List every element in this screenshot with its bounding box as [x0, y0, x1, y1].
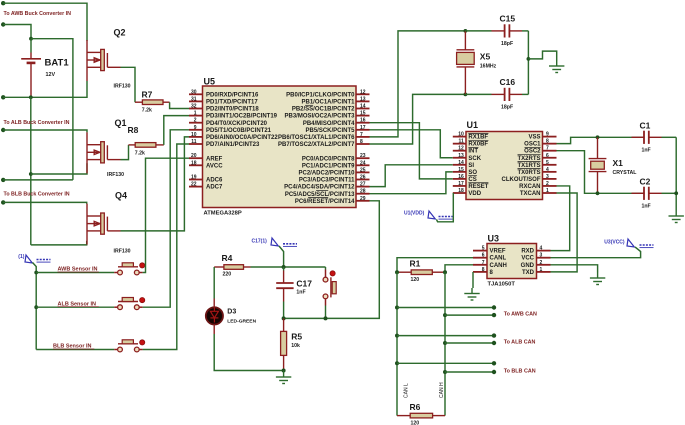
- svg-text:PD0/RXD/PCINT16: PD0/RXD/PCINT16: [206, 92, 259, 98]
- svg-text:11: 11: [459, 139, 465, 145]
- svg-text:PC6/RESET/PCINT14: PC6/RESET/PCINT14: [295, 199, 355, 205]
- svg-text:31: 31: [191, 96, 197, 102]
- svg-text:U1: U1: [467, 120, 479, 130]
- svg-text:U3(VCC): U3(VCC): [604, 239, 625, 245]
- wire CAN H rail: [444, 272, 446, 415]
- pin 13 U1 SCK: [453, 157, 466, 159]
- node R1 right (CAN H): [443, 270, 447, 274]
- svg-text:120: 120: [411, 421, 420, 425]
- pin lead C17 top: [283, 267, 285, 271]
- svg-text:OSC1: OSC1: [524, 142, 541, 148]
- pin 16 U5 PB4/MISO/PCINT4: [356, 122, 370, 124]
- LED D3: [206, 307, 223, 324]
- svg-text:Q2: Q2: [114, 28, 126, 38]
- svg-text:INT: INT: [468, 149, 478, 155]
- wire U5 PB5 (17) to U1 SCK: [370, 130, 453, 158]
- pin 19 U5 ADC6: [189, 179, 203, 181]
- pin lead R1 right: [432, 271, 445, 273]
- pin 6 U1 TX2RTS: [543, 157, 557, 159]
- svg-text:PB3/MOSI/OC2A/PCINT3: PB3/MOSI/OC2A/PCINT3: [284, 114, 355, 120]
- svg-text:23: 23: [360, 153, 366, 159]
- svg-text:X5: X5: [480, 52, 491, 62]
- pin 30 U5 PD0/RXD/PCINT16: [189, 93, 203, 95]
- wire U1 RXCAN to U3 RXD: [551, 186, 570, 251]
- pin 12 U5 PB0/ICP1/CLKO/PCINT0: [356, 93, 370, 95]
- wire ALB button to U5 pin 9 (PD5): [143, 130, 189, 307]
- svg-text:PD1/TXD/PCINT17: PD1/TXD/PCINT17: [206, 100, 258, 106]
- svg-text:PB6/TOSC1/XTAL1/PCINT6: PB6/TOSC1/XTAL1/PCINT6: [278, 135, 355, 141]
- wire U1 OSC1 to X1/C1 rail: [557, 137, 645, 143]
- pin 17 U1 RESET: [453, 185, 466, 187]
- svg-text:12V: 12V: [46, 72, 56, 78]
- svg-text:4: 4: [546, 167, 549, 173]
- flag symbol U1(VDD): [428, 211, 435, 219]
- wire battery- lead down: [30, 72, 32, 97]
- wire U1 TXCAN to U3 TXD: [551, 193, 578, 272]
- svg-text:PD3/INT1/OC2B/PCINT19: PD3/INT1/OC2B/PCINT19: [206, 114, 278, 120]
- svg-text:CRYSTAL: CRYSTAL: [613, 170, 638, 176]
- svg-text:To ALB CAN: To ALB CAN: [504, 339, 536, 345]
- svg-text:10k: 10k: [291, 343, 300, 349]
- pin 9 U5 PD5/T1/OC0B/PCINT21: [189, 129, 203, 131]
- svg-text:10: 10: [191, 132, 197, 138]
- svg-text:TX0RTS: TX0RTS: [517, 170, 540, 176]
- svg-text:SCK: SCK: [468, 156, 481, 162]
- svg-text:13: 13: [458, 153, 464, 159]
- terminal dot To ALB CAN (L): [492, 333, 496, 337]
- svg-text:TX2RTS: TX2RTS: [517, 156, 540, 162]
- svg-text:RXCAN: RXCAN: [519, 184, 540, 190]
- terminal dot To AWB CAN (H): [492, 313, 496, 317]
- svg-text:5: 5: [546, 160, 549, 166]
- svg-text:IRF130: IRF130: [114, 84, 131, 90]
- node sensor rail AWB: [34, 271, 38, 275]
- svg-text:OSC2: OSC2: [524, 149, 541, 155]
- wire battery- to Q4 source: [31, 241, 87, 245]
- terminal dot: To AWB Buck Converter IN (top rail): [1, 1, 5, 5]
- node CAN H tap ALB: [443, 341, 447, 345]
- capacitor C2: [644, 187, 649, 200]
- svg-text:AVCC: AVCC: [206, 163, 223, 169]
- svg-text:R6: R6: [410, 402, 421, 412]
- pin 15 U1 SO: [453, 171, 466, 173]
- wire D3 bottom to ground node: [214, 334, 283, 371]
- svg-text:RXD: RXD: [521, 249, 534, 255]
- svg-text:7.2k: 7.2k: [135, 150, 145, 156]
- svg-text:CAN L: CAN L: [404, 383, 410, 398]
- svg-text:PD6/AIN0/OC0A/PCINT22: PD6/AIN0/OC0A/PCINT22: [206, 135, 278, 141]
- node C17 bottom junction: [282, 316, 286, 320]
- svg-text:GND: GND: [521, 263, 535, 269]
- wire CAN H to To BLB CAN: [445, 371, 494, 373]
- svg-text:C16: C16: [500, 77, 516, 87]
- svg-text:U5: U5: [204, 77, 216, 87]
- pin lead R4 right: [244, 266, 251, 268]
- terminal dot: Q4 drain row: [1, 200, 5, 204]
- pin 18 U1 VDD: [453, 192, 466, 194]
- svg-text:ADC7: ADC7: [206, 185, 223, 191]
- push button reset (vertical): [325, 267, 327, 270]
- svg-text:VREF: VREF: [490, 249, 506, 255]
- pin 23 U5 PC0/ADC0/PCINT8: [356, 157, 370, 159]
- transistor Q2: [87, 40, 121, 81]
- svg-text:14: 14: [458, 160, 464, 166]
- pin 22 U5 ADC7: [189, 186, 203, 188]
- svg-text:PC1/ADC1/PCINT9: PC1/ADC1/PCINT9: [302, 163, 355, 169]
- pin 1 U1 TXCAN: [543, 192, 557, 194]
- pin 15 U5 PB3/MOSI/OC2A/PCINT3: [356, 115, 370, 117]
- wire battery- to Q1 source: [31, 163, 87, 174]
- pin lead C1 right: [649, 136, 662, 138]
- pin 14 U1 SI: [453, 164, 466, 166]
- pin lead C15 left: [465, 30, 491, 32]
- wire U3 GND to ground: [551, 265, 598, 273]
- wire U5 PB4 (16) to U1 CS: [370, 123, 453, 179]
- svg-text:8: 8: [482, 267, 485, 273]
- pin lead D3 bottom: [213, 325, 215, 335]
- svg-text:R7: R7: [142, 90, 153, 100]
- pin lead R5 bottom: [283, 355, 285, 370]
- terminal dot To ALB CAN (H): [492, 341, 496, 345]
- wire Q4 drain row: [3, 202, 87, 203]
- wire R4 corner down to D3: [213, 267, 215, 299]
- node sensor rail ALB: [34, 305, 38, 309]
- pin 20 U5 AREF: [189, 157, 203, 159]
- svg-text:TXCAN: TXCAN: [520, 191, 541, 197]
- pin 10 U5 PD6/AIN0/OC0A/PCINT22: [189, 136, 203, 138]
- pin 32 U5 PD2/INT0/PCINT18: [189, 108, 203, 110]
- pin lead R7 right: [163, 101, 170, 103]
- wire U1 OSC2 to X1/C2 rail: [557, 151, 645, 194]
- wire AWB sensor row: [36, 272, 114, 274]
- push button AWB sensor: [114, 272, 117, 274]
- resistor R1: [411, 270, 432, 275]
- pin 3 U3 VCC: [537, 257, 551, 259]
- flag symbol U3(VCC): [627, 239, 634, 247]
- pin 8 U3 S: [473, 271, 487, 273]
- svg-text:PB5/SCK/PCINT5: PB5/SCK/PCINT5: [305, 128, 355, 134]
- svg-text:30: 30: [191, 89, 197, 95]
- svg-text:27: 27: [360, 182, 366, 188]
- wire CAN H to To AWB CAN: [445, 314, 494, 316]
- svg-text:RX1BF: RX1BF: [468, 135, 488, 141]
- svg-text:PB7/TOSC2/XTAL2/PCINT7: PB7/TOSC2/XTAL2/PCINT7: [278, 142, 355, 148]
- svg-text:(1): (1): [18, 254, 24, 260]
- pin 11 U1 RX0BF: [453, 143, 466, 145]
- terminal dot: Q1 drain row: [1, 128, 5, 132]
- wire R7 to U5 pin 32: [170, 102, 189, 108]
- svg-text:2: 2: [540, 260, 543, 266]
- svg-text:CLKOUT/SOF: CLKOUT/SOF: [502, 177, 541, 183]
- pin 7 U1 OSC2: [543, 150, 557, 152]
- wire U5 PC4 (27) to U1 SI: [370, 165, 453, 187]
- IC U3 body (CAN transceiver): [487, 244, 537, 279]
- ground (crystal X5 filter): [549, 61, 564, 73]
- wire battery+ branch to right rail: [31, 39, 73, 180]
- node C15/C16 ground junction: [527, 57, 531, 61]
- pin lead R1 left: [397, 271, 411, 273]
- svg-text:PC4/ADC4/SDA/PCINT12: PC4/ADC4/SDA/PCINT12: [284, 185, 355, 191]
- wire U3 pin8 to ground: [472, 272, 474, 288]
- wire top rail to Q2 drain: [3, 3, 87, 41]
- node R5/D3 ground junction: [282, 369, 286, 373]
- flag dashes U3(VCC): [640, 244, 654, 246]
- wire Q2 gate to R7: [121, 67, 136, 102]
- svg-text:9: 9: [546, 132, 549, 138]
- wire U5 PB6 (7) to X5/C15: [370, 31, 466, 137]
- svg-text:6: 6: [546, 153, 549, 159]
- flag symbol C17(1): [271, 238, 278, 246]
- pin lead R7 left: [135, 101, 142, 103]
- node X5 top junction: [464, 29, 468, 33]
- svg-text:15: 15: [360, 111, 366, 117]
- svg-text:VCC: VCC: [521, 256, 534, 262]
- pin 4 U1 TX0RTS: [543, 171, 557, 173]
- svg-text:C2: C2: [640, 177, 651, 187]
- pin 1 U5 PD3/INT1/OC2B/PCINT19: [189, 115, 203, 117]
- pin 8 U1 OSC1: [543, 143, 557, 145]
- wire CAN H to To ALB CAN: [445, 342, 494, 344]
- push button ALB sensor: [114, 306, 117, 308]
- svg-text:CANL: CANL: [490, 256, 507, 262]
- svg-text:R5: R5: [291, 331, 302, 341]
- flag dashes C17(1): [283, 243, 297, 245]
- pin 26 U5 PC3/ADC3/PCINT11: [356, 179, 370, 181]
- pin lead C15 right: [509, 30, 522, 32]
- wire battery+ from terminal: [3, 25, 31, 39]
- svg-text:7: 7: [482, 260, 485, 266]
- svg-text:D3: D3: [227, 309, 236, 316]
- resistor R7: [142, 100, 163, 105]
- pin lead C1 left stub: [632, 136, 645, 138]
- svg-text:RESET: RESET: [468, 184, 488, 190]
- ground (U3 S pin): [464, 288, 479, 300]
- pin 2 U1 RXCAN: [543, 185, 557, 187]
- wire R4 right to C17 node and reset button: [251, 266, 326, 268]
- wire AWB button to U5 AREF: [143, 158, 189, 272]
- svg-text:7.2k: 7.2k: [142, 108, 152, 114]
- pin 2 U3 GND: [537, 264, 551, 266]
- svg-text:7: 7: [360, 132, 363, 138]
- pin lead R4 left: [214, 266, 224, 268]
- wire U5 PC6 (29) to reset network: [284, 201, 380, 319]
- svg-text:16: 16: [360, 118, 366, 124]
- ground (X1 load caps): [669, 211, 684, 223]
- svg-text:PD7/AIN1/PCINT23: PD7/AIN1/PCINT23: [206, 142, 260, 148]
- pin 27 U5 PC4/ADC4/SDA/PCINT12: [356, 186, 370, 188]
- svg-text:ADC6: ADC6: [206, 178, 223, 184]
- svg-text:U1(VDD): U1(VDD): [404, 211, 425, 217]
- ground (U3 GND): [590, 273, 605, 285]
- svg-text:TX1RTS: TX1RTS: [517, 163, 540, 169]
- pin lead C2 left stub: [632, 192, 645, 194]
- wire battery- row to Q2 source: [3, 81, 87, 97]
- crystal X1: [589, 137, 607, 193]
- transistor Q4: [87, 204, 121, 245]
- terminal dot To BLB CAN (L): [492, 361, 496, 365]
- wire U5 PB7 (8) to X5/C16: [370, 94, 466, 144]
- svg-text:R4: R4: [222, 253, 233, 263]
- pin lead R5 top: [283, 318, 285, 331]
- svg-text:VDD: VDD: [468, 191, 481, 197]
- wire U3 CANL to R1 node: [397, 258, 473, 273]
- svg-text:1nF: 1nF: [642, 148, 651, 154]
- wire sensor common rail: [35, 273, 37, 350]
- node reset button bottom junction: [324, 316, 328, 320]
- wire battery+ lower row: [3, 179, 73, 181]
- svg-text:17: 17: [360, 125, 366, 131]
- pin 2 U5 PD4/T0/XCK/PCINT20: [189, 122, 203, 124]
- wire Q4 gate to U5 pin 10 (PD6): [121, 137, 190, 231]
- pin 29 U5 PC6/RESET/PCINT14: [356, 200, 370, 202]
- svg-text:IRF130: IRF130: [114, 248, 131, 254]
- svg-text:26: 26: [360, 175, 366, 181]
- svg-text:TXD: TXD: [522, 270, 535, 276]
- svg-text:To BLB CAN: To BLB CAN: [504, 368, 536, 374]
- resistor R5 (vertical): [281, 331, 287, 355]
- wire flag (1) pole: [33, 263, 37, 273]
- svg-text:PB4/MISO/PCINT4: PB4/MISO/PCINT4: [303, 121, 355, 127]
- svg-text:U3: U3: [488, 234, 500, 244]
- svg-text:8: 8: [546, 139, 549, 145]
- pin 17 U5 PB5/SCK/PCINT5: [356, 129, 370, 131]
- pin 12 U1 INT: [453, 150, 466, 152]
- capacitor C15: [505, 24, 510, 37]
- pin 11 U5 PD7/AIN1/PCINT23: [189, 143, 203, 145]
- pin 14 U5 PB2/SS/OC1B/PCINT2: [356, 108, 370, 110]
- node CAN L tap BLB: [395, 361, 399, 365]
- svg-text:BAT1: BAT1: [45, 58, 70, 69]
- pin 9 U1 VSS: [543, 136, 557, 138]
- resistor R4: [224, 265, 244, 270]
- svg-text:32: 32: [191, 104, 197, 110]
- pin lead C16 right: [509, 93, 522, 95]
- wire BLB sensor row: [36, 349, 114, 351]
- pin lead C17 bottom: [283, 288, 285, 301]
- svg-text:7: 7: [546, 146, 549, 152]
- svg-text:1: 1: [540, 267, 543, 273]
- svg-text:11: 11: [191, 139, 197, 145]
- pin 5 U1 TX1RTS: [543, 164, 557, 166]
- node battery- junction at rail: [29, 95, 33, 99]
- svg-text:22: 22: [191, 182, 197, 188]
- svg-text:18: 18: [191, 160, 197, 166]
- terminal dot: battery+ (row2): [1, 22, 5, 26]
- svg-text:29: 29: [360, 196, 366, 202]
- svg-text:TJA1050T: TJA1050T: [488, 282, 516, 288]
- svg-text:17: 17: [458, 181, 464, 187]
- svg-text:PD2/INT0/PCINT18: PD2/INT0/PCINT18: [206, 107, 259, 113]
- pin 8 U5 PB7/TOSC2/XTAL2/PCINT7: [356, 143, 370, 145]
- wire U3 VCC to flag: [551, 247, 641, 258]
- terminal dot To AWB CAN (L): [492, 305, 496, 309]
- flag dashes U1(VDD): [439, 216, 453, 218]
- svg-text:C17(1): C17(1): [252, 239, 268, 245]
- svg-text:CANH: CANH: [490, 263, 507, 269]
- pin 4 U3 RXD: [537, 250, 551, 252]
- node C2 ground junction: [674, 191, 678, 195]
- svg-text:9: 9: [194, 125, 197, 131]
- svg-text:1: 1: [546, 188, 549, 194]
- svg-text:1: 1: [194, 111, 197, 117]
- node CAN H tap AWB: [443, 313, 447, 317]
- svg-text:Q1: Q1: [115, 118, 127, 128]
- svg-text:28: 28: [360, 189, 366, 195]
- wire Q1 gate to R8: [121, 145, 129, 160]
- pin 18 U5 AVCC: [189, 164, 203, 166]
- svg-text:14: 14: [360, 104, 366, 110]
- capacitor C1: [644, 131, 649, 144]
- node R1 left (CAN L): [395, 270, 399, 274]
- svg-text:2: 2: [546, 181, 549, 187]
- svg-text:12: 12: [458, 146, 464, 152]
- svg-text:18pF: 18pF: [501, 41, 513, 47]
- pin 28 U5 PC5/ADC5/SCL/PCINT13: [356, 193, 370, 195]
- wire to reset ground: [283, 371, 285, 372]
- pin 24 U5 PC1/ADC1/PCINT9: [356, 164, 370, 166]
- pin 16 U1 CS: [453, 178, 466, 180]
- wire BLB button to U5 pin 11 (PD7): [143, 144, 189, 350]
- pin 3 U1 CLKOUT/SOF: [543, 178, 557, 180]
- wire R8 to U5 pin 1: [164, 116, 189, 145]
- flag symbol (1): [25, 255, 32, 263]
- wire U1 VDD to flag: [437, 193, 454, 222]
- wire CAN L to To AWB CAN: [397, 307, 494, 309]
- svg-text:2: 2: [194, 118, 197, 124]
- push button BLB sensor: [114, 349, 117, 351]
- pin 13 U5 PB1/OC1A/PCINT1: [356, 100, 370, 102]
- wire C15/C16 right rail: [527, 31, 529, 95]
- terminal dot: battery+ lower row: [1, 178, 5, 182]
- node CAN L tap AWB: [395, 306, 399, 310]
- wire C17(1) flag pole: [279, 246, 284, 267]
- node X1 top junction: [596, 135, 600, 139]
- pin 31 U5 PD1/TXD/PCINT17: [189, 100, 203, 102]
- svg-text:18pF: 18pF: [501, 105, 513, 111]
- svg-text:3: 3: [540, 253, 543, 259]
- resistor R6: [410, 413, 432, 418]
- wire battery+ down to BAT1: [30, 39, 32, 53]
- svg-text:5: 5: [482, 246, 485, 252]
- node battery- to Q1 source junction: [29, 172, 33, 176]
- pin 6 U3 CANL: [473, 257, 487, 259]
- wire CAN L to To BLB CAN: [397, 362, 494, 364]
- svg-text:R1: R1: [410, 259, 421, 269]
- capacitor C17: [276, 283, 293, 288]
- svg-text:18: 18: [458, 188, 464, 194]
- svg-text:PB0/ICP1/CLKO/PCINT0: PB0/ICP1/CLKO/PCINT0: [286, 92, 355, 98]
- svg-text:SI: SI: [468, 163, 474, 169]
- pin lead R6 left: [397, 415, 410, 417]
- svg-text:PC2/ADC2/PCINT10: PC2/ADC2/PCINT10: [298, 171, 355, 177]
- svg-text:C1: C1: [640, 121, 651, 131]
- svg-text:1nF: 1nF: [296, 289, 305, 295]
- wire CAN L to To ALB CAN: [397, 335, 494, 337]
- battery BAT1: [21, 53, 41, 73]
- svg-text:PB2/SS/OC1B/PCINT2: PB2/SS/OC1B/PCINT2: [292, 107, 355, 113]
- svg-text:SO: SO: [468, 170, 477, 176]
- pin 5 U3 VREF: [473, 250, 487, 252]
- pin lead R6 right: [433, 415, 445, 417]
- pin 25 U5 PC2/ADC2/PCINT10: [356, 171, 370, 173]
- svg-text:10: 10: [458, 132, 464, 138]
- svg-text:220: 220: [223, 272, 232, 278]
- svg-text:20: 20: [191, 153, 197, 159]
- svg-text:IRF130: IRF130: [107, 172, 124, 178]
- svg-text:4: 4: [540, 246, 543, 252]
- node battery+ junction: [29, 37, 33, 41]
- svg-text:PD5/T1/OC0B/PCINT21: PD5/T1/OC0B/PCINT21: [206, 128, 272, 134]
